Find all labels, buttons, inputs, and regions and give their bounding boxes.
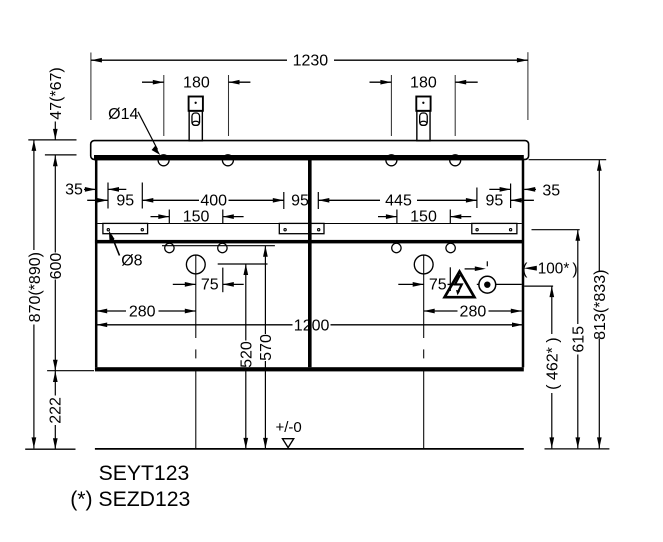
svg-text:Ø14: Ø14 bbox=[108, 106, 138, 123]
svg-text:222: 222 bbox=[47, 397, 64, 424]
svg-text:SEYT123: SEYT123 bbox=[99, 462, 190, 485]
svg-text:75: 75 bbox=[429, 276, 447, 293]
svg-text:870(*890): 870(*890) bbox=[27, 252, 44, 322]
svg-text:95: 95 bbox=[291, 192, 309, 209]
svg-text:445: 445 bbox=[385, 192, 412, 209]
svg-text:Ø8: Ø8 bbox=[121, 252, 142, 269]
svg-text:280: 280 bbox=[460, 304, 487, 321]
svg-text:615: 615 bbox=[571, 326, 588, 353]
svg-text:180: 180 bbox=[183, 75, 210, 92]
svg-text:1230: 1230 bbox=[293, 53, 329, 70]
svg-text:520: 520 bbox=[238, 341, 255, 368]
svg-text:280: 280 bbox=[129, 304, 156, 321]
svg-text:( 462* ): ( 462* ) bbox=[545, 337, 562, 389]
svg-text:35: 35 bbox=[65, 182, 83, 199]
svg-text:180: 180 bbox=[410, 75, 437, 92]
svg-text:95: 95 bbox=[486, 192, 504, 209]
svg-text:150: 150 bbox=[183, 209, 210, 226]
svg-text:47(*67): 47(*67) bbox=[48, 67, 65, 119]
svg-text:600: 600 bbox=[48, 253, 65, 280]
svg-text:400: 400 bbox=[200, 192, 227, 209]
svg-text:95: 95 bbox=[116, 192, 134, 209]
svg-text:100*: 100* bbox=[538, 261, 570, 278]
svg-text:(*) SEZD123: (*) SEZD123 bbox=[70, 488, 190, 511]
svg-text:): ) bbox=[572, 261, 577, 278]
svg-text:+/-0: +/-0 bbox=[275, 419, 301, 436]
svg-text:(: ( bbox=[522, 261, 528, 278]
svg-text:75: 75 bbox=[201, 276, 219, 293]
svg-text:35: 35 bbox=[542, 183, 560, 200]
svg-text:150: 150 bbox=[410, 209, 437, 226]
svg-text:1200: 1200 bbox=[294, 317, 330, 334]
svg-text:813(*833): 813(*833) bbox=[592, 270, 609, 340]
svg-text:570: 570 bbox=[258, 334, 275, 361]
